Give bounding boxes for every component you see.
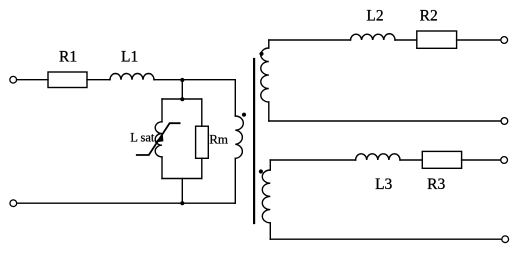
- wire terminal to R1: [17, 79, 48, 81]
- wire secondary 2 return: [270, 238, 502, 240]
- secondary 1 polarity dot: [259, 52, 263, 56]
- wire branch bottom horizontal: [162, 178, 202, 180]
- wire R2 to output terminal: [457, 39, 501, 41]
- wire branch top horizontal: [162, 98, 202, 100]
- wire secondary 1 return: [269, 120, 501, 122]
- wire secondary 1 top to L2: [269, 39, 351, 41]
- output terminal 4: [502, 236, 509, 243]
- inductor L2: [351, 34, 396, 40]
- node junction dot on top wire: [180, 78, 184, 82]
- svg-text:L1: L1: [121, 49, 138, 66]
- resistor R1: [48, 72, 87, 88]
- saturable core diagonal stroke: [137, 123, 180, 155]
- inductor L1: [110, 74, 154, 80]
- svg-text:R3: R3: [427, 176, 445, 193]
- transformer secondary 1 winding: [261, 48, 269, 102]
- wire left branch upper vertical: [161, 99, 163, 122]
- transformer core: [253, 59, 255, 223]
- wire secondary 2 bottom lead: [269, 223, 271, 239]
- input terminal (top left): [10, 76, 17, 83]
- primary polarity dot: [242, 113, 246, 117]
- wire right branch upper vertical: [201, 99, 203, 126]
- wire L1 to transformer primary: [154, 79, 235, 81]
- wire L2 to R2: [395, 39, 417, 41]
- wire R3 to output terminal: [462, 159, 501, 161]
- wire left branch lower vertical: [161, 157, 163, 179]
- wire branch center tap down to bottom rail: [181, 179, 183, 204]
- svg-text:R1: R1: [59, 49, 77, 66]
- transformer secondary 2 winding: [262, 170, 270, 223]
- saturation arrowhead: [155, 134, 164, 142]
- resistor R3: [422, 151, 461, 168]
- output terminal 3: [501, 157, 508, 164]
- resistor R2: [417, 31, 457, 48]
- wire secondary 1 bottom lead: [268, 102, 270, 121]
- wire secondary 2 top lead: [269, 160, 271, 170]
- svg-text:L2: L2: [366, 8, 383, 25]
- resistor Rm: [196, 126, 209, 158]
- node junction dot on branch top: [180, 97, 184, 101]
- transformer primary winding: [235, 116, 243, 158]
- output terminal 1: [501, 37, 508, 44]
- wire secondary 2 top to L3: [270, 159, 355, 161]
- wire secondary 1 top lead: [268, 40, 270, 48]
- secondary 2 polarity dot: [259, 169, 263, 173]
- wire L3 to R3: [400, 159, 422, 161]
- svg-text:L sat: L sat: [130, 131, 155, 145]
- input terminal (bottom left): [10, 200, 17, 207]
- node junction dot on bottom rail: [180, 201, 184, 205]
- wire primary bottom lead: [234, 158, 237, 203]
- wire tap down to magnetizing branch: [181, 80, 183, 99]
- wire primary top lead: [234, 80, 236, 116]
- wire bottom rail: [17, 202, 235, 204]
- wire right branch lower vertical: [201, 158, 203, 178]
- svg-text:R2: R2: [420, 8, 438, 25]
- wire R1 to L1: [87, 79, 110, 81]
- svg-text:L3: L3: [375, 176, 392, 193]
- svg-text:Rm: Rm: [209, 132, 228, 147]
- output terminal 2: [501, 118, 508, 125]
- inductor L3: [356, 154, 400, 160]
- inductor Lsat coil: [155, 122, 162, 157]
